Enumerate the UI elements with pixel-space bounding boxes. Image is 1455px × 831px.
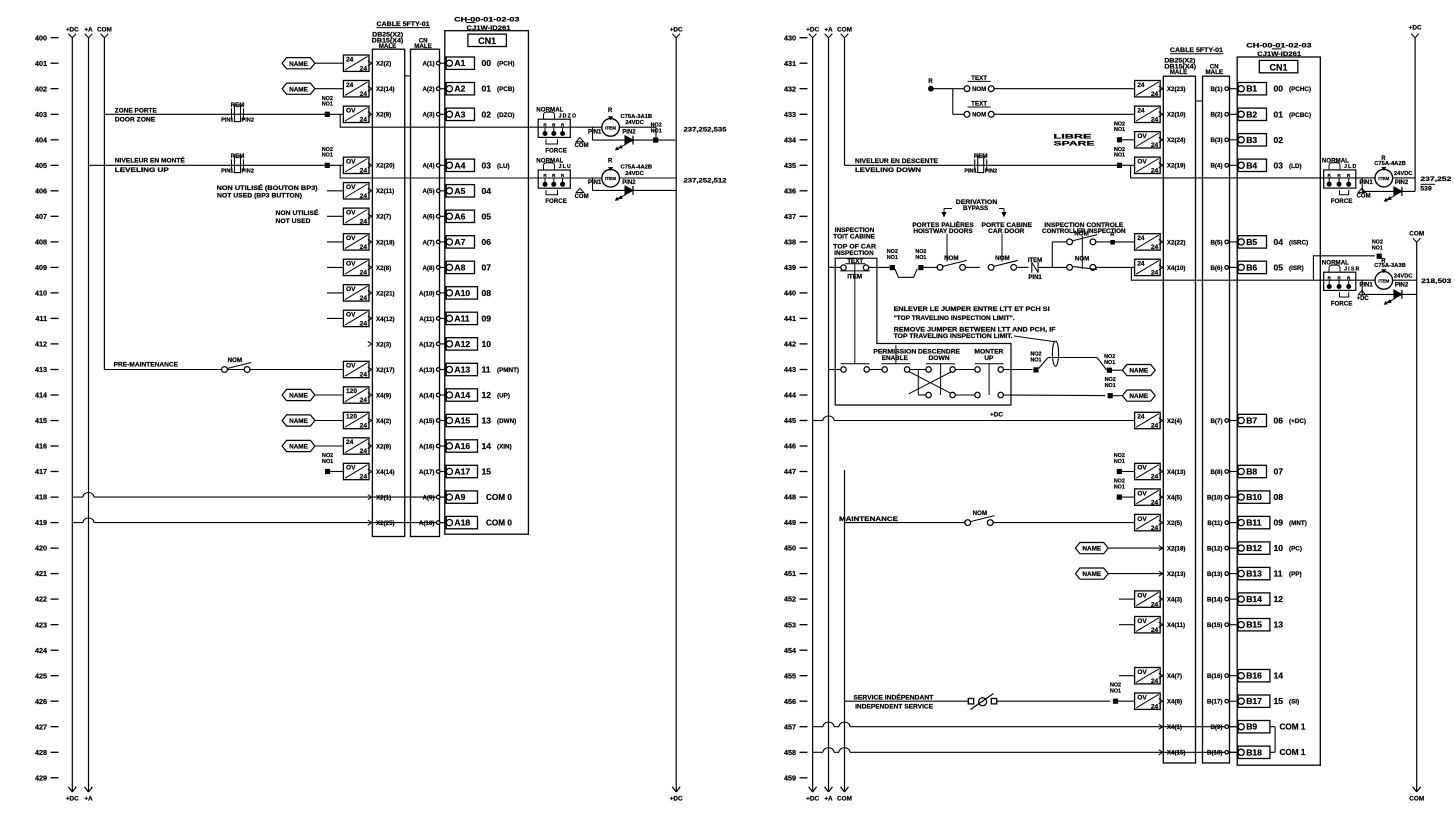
svg-text:B2: B2 [1246,109,1257,119]
svg-text:OV: OV [346,312,356,319]
svg-text:24: 24 [360,474,368,481]
svg-text:X2(7): X2(7) [376,214,391,221]
svg-text:409: 409 [35,263,47,272]
svg-text:403: 403 [35,110,47,119]
svg-text:DOWN: DOWN [929,355,951,362]
svg-text:NO1: NO1 [1110,689,1121,695]
svg-text:24VDC: 24VDC [625,171,645,177]
svg-text:08: 08 [482,288,492,298]
svg-text:00: 00 [1274,84,1284,94]
svg-text:418: 418 [35,493,47,502]
svg-text:C75A-4A2B: C75A-4A2B [621,165,653,171]
svg-text:ITEM: ITEM [1028,258,1042,264]
svg-text:24VDC: 24VDC [1394,273,1414,279]
svg-text:TOIT CABINE: TOIT CABINE [833,233,875,240]
svg-text:+A: +A [824,795,833,802]
svg-text:X2(24): X2(24) [1167,137,1186,144]
svg-text:NO1: NO1 [322,153,333,159]
svg-text:NAME: NAME [1129,368,1149,375]
svg-text:NON UTILISÉ: NON UTILISÉ [276,208,319,217]
svg-text:237,252,512: 237,252,512 [684,178,727,185]
svg-text:(+DC): (+DC) [1289,418,1306,425]
svg-text:24: 24 [346,82,354,89]
svg-text:452: 452 [784,595,796,604]
svg-text:15: 15 [482,467,492,477]
svg-text:24: 24 [360,397,368,404]
svg-text:07: 07 [1274,467,1284,477]
svg-text:X2(8): X2(8) [376,443,391,450]
svg-text:LEVELING UP: LEVELING UP [115,167,169,174]
svg-text:JDZO: JDZO [559,113,578,119]
svg-text:FORCE: FORCE [545,198,567,205]
svg-text:ENABLE: ENABLE [882,355,908,362]
svg-text:24: 24 [360,65,368,72]
svg-text:429: 429 [35,773,47,782]
svg-text:OV: OV [346,261,356,268]
svg-text:(SI): (SI) [1289,699,1299,706]
svg-text:PIN1: PIN1 [1028,275,1042,281]
svg-text:24: 24 [1137,82,1145,89]
svg-text:X2(9): X2(9) [376,112,391,119]
svg-text:14: 14 [1274,671,1284,681]
svg-text:A13: A13 [454,365,470,375]
svg-text:B(11): B(11) [1207,520,1222,527]
svg-text:439: 439 [784,263,796,272]
svg-text:+DC: +DC [806,26,819,33]
svg-text:COM 0: COM 0 [486,519,512,528]
svg-text:PIN2: PIN2 [1395,282,1409,288]
svg-text:X4(10): X4(10) [1167,265,1186,272]
svg-text:PRE-MAINTENANCE: PRE-MAINTENANCE [114,362,179,369]
svg-text:A(9): A(9) [422,495,434,502]
svg-text:COM: COM [837,795,852,802]
svg-text:R: R [608,159,613,165]
svg-text:441: 441 [784,314,796,323]
svg-text:01: 01 [482,84,492,94]
svg-text:451: 451 [784,569,796,578]
svg-text:B(17): B(17) [1207,699,1222,706]
svg-text:NAME: NAME [289,444,309,451]
svg-text:B(14): B(14) [1207,597,1222,604]
svg-text:427: 427 [35,722,47,731]
svg-text:B(12): B(12) [1207,546,1222,553]
svg-text:CN1: CN1 [1269,63,1287,73]
svg-text:24: 24 [360,448,368,455]
svg-text:X4(13): X4(13) [1167,469,1186,476]
svg-text:A(6): A(6) [422,214,434,221]
svg-text:(PCB): (PCB) [497,86,515,93]
svg-text:447: 447 [784,467,796,476]
svg-text:NOM: NOM [995,255,1009,262]
svg-text:X4(3): X4(3) [1167,597,1182,604]
svg-text:A3: A3 [454,109,465,119]
svg-text:(PC): (PC) [1289,546,1302,553]
svg-text:05: 05 [1274,262,1284,272]
svg-text:MALE: MALE [414,43,432,50]
svg-text:PIN2: PIN2 [622,180,636,186]
svg-text:24: 24 [1151,270,1159,277]
svg-text:JISR: JISR [1344,266,1360,272]
svg-text:09: 09 [1274,518,1284,528]
svg-text:B7: B7 [1246,416,1257,426]
svg-text:X2(18): X2(18) [1167,546,1186,553]
svg-text:A(12): A(12) [419,341,434,348]
svg-text:NOT USED: NOT USED [276,218,311,225]
svg-text:OV: OV [1137,490,1147,497]
svg-text:NAME: NAME [289,86,309,93]
svg-text:TEXT: TEXT [971,75,987,82]
svg-text:B4: B4 [1246,160,1257,170]
svg-text:09: 09 [482,313,492,323]
svg-text:A7: A7 [454,237,465,247]
svg-text:PIN2: PIN2 [622,129,636,135]
svg-text:X4(9): X4(9) [376,392,391,399]
svg-text:OV: OV [1137,465,1147,472]
svg-text:13: 13 [1274,620,1284,630]
svg-text:440: 440 [784,289,796,298]
svg-text:435: 435 [784,161,796,170]
svg-text:PIN1: PIN1 [1359,282,1373,288]
svg-text:HOISTWAY DOORS: HOISTWAY DOORS [913,228,972,235]
svg-text:X4(15): X4(15) [1167,750,1186,757]
svg-text:A10: A10 [454,288,470,298]
svg-text:X2(19): X2(19) [1167,163,1186,170]
svg-text:MALE: MALE [1206,69,1224,76]
svg-text:A(8): A(8) [422,265,434,272]
svg-text:408: 408 [35,238,47,247]
svg-text:OV: OV [1137,592,1147,599]
svg-text:06: 06 [482,237,492,247]
svg-text:A(4): A(4) [422,163,434,170]
svg-text:10: 10 [1274,543,1284,553]
svg-text:448: 448 [784,493,796,502]
svg-text:B17: B17 [1246,696,1262,706]
svg-text:24: 24 [346,439,354,446]
svg-text:405: 405 [35,161,47,170]
svg-text:419: 419 [35,518,47,527]
svg-text:NO1: NO1 [1030,357,1041,363]
svg-text:24: 24 [1151,678,1159,685]
svg-text:(PP): (PP) [1289,571,1302,578]
svg-text:24: 24 [1151,474,1159,481]
svg-text:COM: COM [97,26,112,33]
svg-text:(ISR): (ISR) [1289,265,1304,272]
svg-text:COM 1: COM 1 [1280,748,1306,757]
svg-text:24VDC: 24VDC [1394,171,1414,177]
svg-text:407: 407 [35,212,47,221]
svg-text:13: 13 [482,416,492,426]
svg-text:OV: OV [346,159,356,166]
svg-text:SPARE: SPARE [1054,141,1095,148]
svg-text:INDEPENDENT SERVICE: INDEPENDENT SERVICE [855,704,933,711]
svg-text:OV: OV [346,363,356,370]
svg-text:B(13): B(13) [1207,571,1222,578]
svg-text:24: 24 [1151,703,1159,710]
svg-text:X2(25): X2(25) [376,520,395,527]
svg-text:+DC: +DC [1357,296,1370,302]
svg-text:24: 24 [360,91,368,98]
svg-text:ZONE PORTE: ZONE PORTE [115,108,157,115]
svg-text:24: 24 [1151,423,1159,430]
svg-text:433: 433 [784,110,796,119]
svg-text:MALE: MALE [379,43,397,50]
svg-text:NOM: NOM [944,255,958,262]
svg-text:NOM: NOM [972,87,986,93]
svg-text:A9: A9 [454,492,465,502]
svg-text:24: 24 [360,372,368,379]
svg-text:24: 24 [360,117,368,124]
svg-text:NO1: NO1 [1114,459,1125,465]
svg-text:11: 11 [1274,569,1283,579]
svg-text:B13: B13 [1246,569,1262,579]
svg-text:444: 444 [784,391,796,400]
svg-text:X4(1): X4(1) [1167,724,1182,731]
svg-text:B3: B3 [1246,135,1257,145]
svg-text:OV: OV [1137,694,1147,701]
svg-text:445: 445 [784,416,796,425]
svg-text:B8: B8 [1246,467,1257,477]
svg-text:B14: B14 [1246,594,1262,604]
svg-text:X2(17): X2(17) [376,367,395,374]
svg-text:X2(1): X2(1) [376,495,391,502]
svg-text:(LU): (LU) [497,163,510,170]
svg-text:NAME: NAME [289,61,309,68]
svg-text:04: 04 [1274,237,1284,247]
svg-text:CJ1W-ID261: CJ1W-ID261 [467,25,512,32]
svg-text:01: 01 [1274,109,1284,119]
svg-text:X4(8): X4(8) [1167,699,1182,706]
svg-text:X4(5): X4(5) [1167,495,1182,502]
svg-text:DOOR ZONE: DOOR ZONE [115,116,155,123]
svg-text:CJ1W-ID261: CJ1W-ID261 [1257,51,1302,58]
svg-text:A(2): A(2) [422,86,434,93]
svg-text:NO1: NO1 [322,459,333,465]
svg-text:A(14): A(14) [419,392,434,399]
svg-text:+A: +A [84,26,93,33]
svg-text:24: 24 [1137,235,1145,242]
svg-text:A11: A11 [454,313,470,323]
svg-text:06: 06 [1274,416,1284,426]
svg-text:24: 24 [1151,244,1159,251]
svg-text:X2(2): X2(2) [376,61,391,68]
svg-text:COM: COM [1409,231,1424,238]
svg-text:NOM: NOM [1075,255,1089,262]
svg-text:NO1: NO1 [915,255,926,261]
svg-text:X2(3): X2(3) [376,341,391,348]
svg-text:03: 03 [1274,160,1284,170]
svg-text:(PCHC): (PCHC) [1289,86,1311,93]
svg-text:ENLEVER LE JUMPER ENTRE LTT ET: ENLEVER LE JUMPER ENTRE LTT ET PCH SI [894,306,1050,313]
svg-text:15: 15 [1274,696,1284,706]
svg-text:A2: A2 [454,84,465,94]
svg-text:B12: B12 [1246,543,1262,553]
svg-text:24: 24 [360,244,368,251]
svg-text:NOT USED (BP3 BUTTON): NOT USED (BP3 BUTTON) [217,192,302,199]
svg-text:120: 120 [346,388,357,395]
svg-text:TEXT: TEXT [971,100,987,107]
svg-text:B(5): B(5) [1210,239,1222,246]
svg-text:453: 453 [784,620,796,629]
svg-text:434: 434 [784,135,796,144]
svg-text:NON UTILISÉ (BOUTON BP3): NON UTILISÉ (BOUTON BP3) [217,183,318,192]
svg-text:14: 14 [482,441,492,451]
svg-text:432: 432 [784,84,796,93]
svg-text:B18: B18 [1246,747,1262,757]
svg-text:24: 24 [360,321,368,328]
svg-text:PIN1: PIN1 [221,168,233,174]
svg-text:A4: A4 [454,160,465,170]
svg-text:456: 456 [784,697,796,706]
svg-text:24: 24 [346,56,354,63]
svg-text:24: 24 [360,295,368,302]
svg-text:A(1): A(1) [422,61,434,68]
svg-text:NOM: NOM [1074,230,1088,237]
svg-text:(PCH): (PCH) [497,61,515,68]
svg-text:24: 24 [360,219,368,226]
svg-text:NAME: NAME [1082,571,1102,578]
svg-text:+DC: +DC [670,795,683,802]
svg-text:24: 24 [360,193,368,200]
svg-text:NO1: NO1 [887,255,898,261]
svg-text:PIN2: PIN2 [242,168,254,174]
svg-text:A16: A16 [454,441,470,451]
svg-text:B5: B5 [1246,237,1257,247]
svg-text:(DWN): (DWN) [497,418,516,425]
svg-text:X2(23): X2(23) [1167,86,1186,93]
svg-text:ITEM: ITEM [605,125,616,130]
svg-text:A(10): A(10) [419,290,434,297]
svg-text:BYPASS: BYPASS [963,205,988,212]
svg-text:B(8): B(8) [1210,469,1222,476]
svg-text:NAME: NAME [1129,393,1149,400]
svg-text:420: 420 [35,544,47,553]
svg-text:(UP): (UP) [497,393,510,400]
svg-text:NO1: NO1 [1114,153,1125,159]
svg-text:COM 1: COM 1 [1280,723,1306,732]
svg-text:X2(4): X2(4) [1167,418,1182,425]
svg-text:NIVELEUR EN DESCENTE: NIVELEUR EN DESCENTE [855,158,938,165]
svg-text:OV: OV [346,184,356,191]
svg-text:COM: COM [575,143,589,149]
svg-text:02: 02 [482,109,492,119]
svg-text:430: 430 [784,33,796,42]
svg-text:COM 0: COM 0 [486,493,512,502]
svg-text:OV: OV [346,465,356,472]
svg-text:438: 438 [784,238,796,247]
svg-text:11: 11 [482,365,491,375]
svg-text:A(5): A(5) [422,188,434,195]
svg-text:417: 417 [35,467,47,476]
svg-text:415: 415 [35,416,47,425]
svg-text:JLU: JLU [559,164,572,170]
svg-text:B10: B10 [1246,492,1262,502]
svg-text:A(18): A(18) [419,520,434,527]
svg-text:NOM: NOM [973,510,987,517]
svg-text:414: 414 [35,391,47,400]
svg-text:OV: OV [346,286,356,293]
svg-text:R: R [608,108,613,114]
svg-text:C75A-3A3B: C75A-3A3B [1374,263,1406,269]
svg-text:"TOP TRAVELING INSPECTION LIMI: "TOP TRAVELING INSPECTION LIMIT". [894,315,1015,322]
svg-text:A(11): A(11) [419,316,434,323]
svg-text:B(3): B(3) [1210,137,1222,144]
svg-text:400: 400 [35,33,47,42]
svg-text:A15: A15 [454,416,470,426]
svg-text:428: 428 [35,748,47,757]
svg-text:X2(22): X2(22) [1167,239,1186,246]
svg-text:B6: B6 [1246,262,1257,272]
svg-text:539: 539 [1420,185,1432,192]
svg-text:OV: OV [346,108,356,115]
svg-text:24: 24 [1151,91,1159,98]
svg-text:JLD: JLD [1344,164,1357,170]
svg-text:C75A-3A1B: C75A-3A1B [621,114,653,120]
svg-text:X2(8): X2(8) [376,265,391,272]
svg-text:455: 455 [784,671,796,680]
svg-text:443: 443 [784,365,796,374]
svg-text:CN1: CN1 [478,36,496,46]
svg-text:+DC: +DC [670,26,683,33]
svg-text:07: 07 [482,262,492,272]
svg-text:COM: COM [1409,795,1424,802]
svg-text:LIBRE: LIBRE [1054,133,1092,140]
svg-text:R: R [928,78,933,85]
svg-text:24: 24 [360,168,368,175]
svg-text:NO1: NO1 [322,102,333,108]
svg-text:NO1: NO1 [1104,360,1115,366]
svg-text:B16: B16 [1246,671,1262,681]
svg-text:X4(2): X4(2) [376,418,391,425]
svg-text:411: 411 [35,314,47,323]
svg-text:OV: OV [1137,516,1147,523]
svg-text:+DC: +DC [66,795,79,802]
svg-text:FORCE: FORCE [1331,198,1353,205]
svg-text:A12: A12 [454,339,470,349]
svg-text:+DC: +DC [1409,24,1422,31]
svg-text:B(1): B(1) [1210,86,1222,93]
svg-text:CABLE 5FTY-01: CABLE 5FTY-01 [1170,48,1224,54]
svg-text:OV: OV [346,235,356,242]
svg-text:ITEM: ITEM [605,176,616,181]
svg-text:00: 00 [482,58,492,68]
svg-text:436: 436 [784,186,796,195]
svg-text:X4(12): X4(12) [376,316,395,323]
svg-text:449: 449 [784,518,796,527]
svg-text:OV: OV [1137,133,1147,140]
svg-text:X2(13): X2(13) [1167,571,1186,578]
svg-text:218,503: 218,503 [1421,278,1451,285]
svg-text:NO1: NO1 [1114,485,1125,491]
svg-text:+A: +A [824,26,833,33]
svg-text:24: 24 [1151,627,1159,634]
svg-text:NIVELEUR EN MONTÉ: NIVELEUR EN MONTÉ [115,156,185,165]
svg-text:B(7): B(7) [1210,418,1222,425]
svg-text:(LD): (LD) [1289,163,1302,170]
svg-text:ITEM: ITEM [1378,176,1389,181]
svg-text:CABLE 5FTY-01: CABLE 5FTY-01 [377,22,431,28]
svg-text:+DC: +DC [806,795,819,802]
svg-text:237,252: 237,252 [1420,176,1451,183]
svg-text:X2(20): X2(20) [376,163,395,170]
svg-text:B(4): B(4) [1210,163,1222,170]
svg-text:406: 406 [35,186,47,195]
svg-text:B(10): B(10) [1207,495,1222,502]
svg-text:COM: COM [575,194,589,200]
svg-text:CH-00-01-02-03: CH-00-01-02-03 [454,16,520,23]
svg-text:B(9): B(9) [1210,724,1222,731]
svg-text:COM: COM [1357,194,1371,200]
svg-text:FORCE: FORCE [545,147,567,154]
